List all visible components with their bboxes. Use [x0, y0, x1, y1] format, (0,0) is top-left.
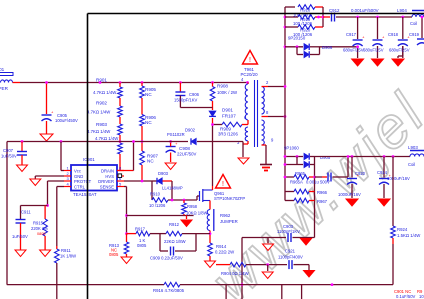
svg-text:JUMPER: JUMPER	[0, 86, 9, 91]
svg-text:PROTCT: PROTCT	[74, 179, 92, 184]
svg-text:680uF/25V: 680uF/25V	[389, 48, 410, 53]
svg-text:STP10NK70ZFP: STP10NK70ZFP	[214, 196, 245, 201]
svg-text:4.7KΩ 1/4W: 4.7KΩ 1/4W	[87, 129, 111, 134]
svg-text:R910: R910	[150, 192, 161, 197]
svg-text:0.001u 500V: 0.001u 500V	[306, 180, 330, 185]
svg-text:1100pF/1KV: 1100pF/1KV	[277, 229, 300, 234]
svg-text:0.22Ω 2W: 0.22Ω 2W	[215, 250, 235, 255]
svg-text:Vcc: Vcc	[74, 168, 81, 173]
svg-text:R966: R966	[317, 190, 328, 195]
svg-text:R915: R915	[33, 221, 44, 226]
svg-text:JUMPER: JUMPER	[220, 219, 238, 224]
svg-text:Coil: Coil	[410, 21, 417, 26]
svg-text:D903: D903	[158, 171, 169, 176]
svg-text:SENSE: SENSE	[100, 185, 114, 190]
svg-text:C908: C908	[179, 146, 190, 151]
svg-text:R902: R902	[96, 101, 107, 106]
svg-text:HVS: HVS	[105, 174, 114, 179]
svg-text:TEA1530AT: TEA1530AT	[73, 192, 97, 197]
svg-text:IC901: IC901	[83, 157, 95, 162]
svg-text:10: 10	[419, 294, 424, 299]
svg-text:DRAIN: DRAIN	[101, 168, 114, 173]
svg-text:FR107: FR107	[222, 114, 236, 119]
svg-text:1.5KΩ 1/4W: 1.5KΩ 1/4W	[397, 233, 421, 238]
svg-text:R914: R914	[216, 244, 227, 249]
svg-text:1uF/50V: 1uF/50V	[12, 234, 28, 239]
svg-text:DRIVER: DRIVER	[98, 179, 114, 184]
svg-text:R965A: R965A	[290, 180, 303, 185]
svg-text:1K 1/8W: 1K 1/8W	[60, 254, 76, 259]
svg-text:R962: R962	[220, 213, 231, 218]
svg-text:C917: C917	[346, 32, 357, 37]
svg-text:L903: L903	[408, 145, 418, 150]
svg-text:1000uF/16V: 1000uF/16V	[387, 176, 410, 181]
svg-text:10KΩ 1/8W: 10KΩ 1/8W	[186, 211, 208, 216]
svg-text:NC: NC	[147, 159, 154, 164]
svg-text:100 /1206: 100 /1206	[293, 21, 313, 26]
svg-text:1100pF/400V: 1100pF/400V	[278, 255, 303, 260]
svg-text:680uF/25V: 680uF/25V	[343, 48, 364, 53]
svg-text:PS1102R: PS1102R	[167, 132, 185, 137]
svg-text:R908: R908	[217, 84, 228, 89]
svg-text:22KΩ 1/8W: 22KΩ 1/8W	[164, 239, 186, 244]
svg-text:C911: C911	[21, 210, 31, 215]
svg-text:9P20150: 9P20150	[288, 36, 306, 41]
svg-text:C907: C907	[3, 148, 14, 153]
svg-text:R912: R912	[169, 222, 180, 227]
svg-text:Coil: Coil	[408, 162, 415, 167]
svg-text:680uF/25V: 680uF/25V	[363, 48, 384, 53]
svg-text:LL4148WP: LL4148WP	[162, 186, 183, 191]
svg-text:GND: GND	[74, 174, 83, 179]
svg-text:R911: R911	[61, 248, 71, 253]
svg-text:100uF/450V: 100uF/450V	[55, 118, 78, 123]
svg-text:L904: L904	[397, 8, 407, 13]
svg-text:R924: R924	[397, 227, 408, 232]
svg-text:!: !	[249, 57, 251, 64]
svg-text:D906: D906	[322, 45, 333, 50]
svg-text:220K 2%: 220K 2%	[31, 226, 48, 231]
svg-text:4.7KΩ 1/4W: 4.7KΩ 1/4W	[93, 90, 117, 95]
svg-text:R967: R967	[317, 199, 328, 204]
svg-text:4.7KΩ 1/4W: 4.7KΩ 1/4W	[87, 110, 111, 115]
svg-text:3R3 /1206: 3R3 /1206	[218, 132, 238, 137]
svg-text:9P1060: 9P1060	[284, 146, 299, 151]
svg-text:R916 4.7K/0805: R916 4.7K/0805	[153, 288, 185, 293]
svg-text:1uF/50V: 1uF/50V	[1, 154, 17, 159]
svg-text:C912: C912	[329, 8, 340, 13]
svg-text:100K / 2W: 100K / 2W	[217, 90, 238, 95]
svg-text:R965: R965	[295, 171, 306, 176]
svg-text:0805: 0805	[109, 252, 119, 257]
svg-text:NC: NC	[145, 92, 152, 97]
svg-text:D905: D905	[320, 155, 331, 160]
svg-text:NC: NC	[145, 120, 152, 125]
svg-text:C919: C919	[409, 32, 420, 37]
svg-text:C921: C921	[285, 249, 296, 254]
svg-text:R901: R901	[96, 78, 107, 83]
svg-text:D901: D901	[222, 108, 233, 113]
svg-text:D902: D902	[185, 128, 196, 133]
svg-text:CTRL: CTRL	[74, 185, 86, 190]
svg-text:0805: 0805	[37, 232, 45, 236]
svg-text:C909 0.22uF/50V: C909 0.22uF/50V	[150, 256, 183, 261]
svg-text:10 /1206: 10 /1206	[149, 203, 166, 208]
svg-text:R904 0Ω 1/4W: R904 0Ω 1/4W	[221, 271, 249, 276]
svg-text:C918: C918	[388, 32, 399, 37]
svg-text:C920: C920	[355, 171, 366, 176]
svg-text:22UF/50V: 22UF/50V	[177, 152, 196, 157]
svg-text:0805: 0805	[137, 243, 147, 248]
svg-text:R958: R958	[187, 204, 198, 209]
svg-text:R903: R903	[96, 122, 107, 127]
svg-text:C914: C914	[377, 170, 388, 175]
svg-text:1500pF/1KV: 1500pF/1KV	[174, 98, 197, 103]
svg-text:R917: R917	[135, 227, 146, 232]
svg-text:1000uF/16V: 1000uF/16V	[338, 192, 361, 197]
svg-text:L901: L901	[0, 67, 5, 72]
svg-text:C906: C906	[189, 92, 200, 97]
svg-text:4.7KΩ 1/4W: 4.7KΩ 1/4W	[95, 136, 119, 141]
svg-text:!: !	[222, 181, 224, 188]
svg-text:0.001uF/500V: 0.001uF/500V	[351, 8, 379, 13]
svg-text:0.1uF/50V: 0.1uF/50V	[396, 294, 416, 299]
